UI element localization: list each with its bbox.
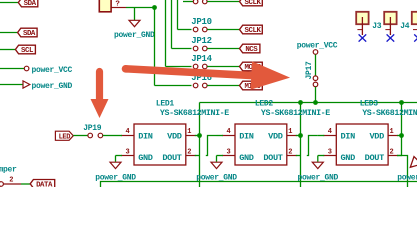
svg-text:1: 1 (288, 128, 292, 136)
svg-text:2: 2 (187, 149, 191, 157)
svg-text:DIN: DIN (341, 132, 356, 142)
svg-text:SCL: SCL (21, 47, 34, 55)
svg-text:2: 2 (390, 149, 394, 157)
svg-text:JP10: JP10 (191, 17, 211, 27)
svg-text:2: 2 (288, 149, 292, 157)
svg-text:YS-SK6812MINI-E: YS-SK6812MINI-E (362, 109, 417, 118)
svg-text:LED3: LED3 (360, 100, 379, 109)
svg-text:NCS: NCS (245, 46, 258, 54)
svg-text:SCLK: SCLK (245, 27, 262, 35)
svg-text:VDD: VDD (268, 132, 283, 142)
svg-text:4: 4 (125, 128, 129, 136)
svg-text:LED: LED (59, 133, 71, 141)
svg-text:J4: J4 (400, 22, 410, 31)
svg-text:GND: GND (341, 153, 356, 163)
svg-text:3: 3 (328, 149, 332, 157)
svg-text:DOUT: DOUT (162, 153, 181, 163)
svg-text:J3: J3 (372, 22, 382, 31)
svg-text:power_GND: power_GND (32, 82, 73, 91)
svg-text:VDD: VDD (167, 132, 182, 142)
svg-text:SCLK: SCLK (245, 0, 262, 7)
svg-text:power_VCC: power_VCC (297, 41, 338, 50)
svg-text:DIN: DIN (138, 132, 153, 142)
svg-text:GND: GND (239, 153, 254, 163)
svg-text:DOUT: DOUT (365, 153, 384, 163)
svg-text:SDA: SDA (24, 0, 37, 8)
svg-text:DOUT: DOUT (263, 153, 282, 163)
svg-text:DATA: DATA (36, 182, 53, 188)
svg-text:GND: GND (138, 153, 153, 163)
svg-text:JP12: JP12 (191, 36, 211, 46)
svg-text:1: 1 (187, 128, 191, 136)
svg-text:power_GND: power_GND (114, 31, 155, 40)
svg-text:JP19: JP19 (83, 124, 102, 133)
svg-text:DIN: DIN (239, 132, 254, 142)
svg-text:SDA: SDA (23, 30, 36, 38)
svg-text:JP17: JP17 (305, 61, 314, 80)
svg-text:3: 3 (125, 149, 129, 157)
svg-text:1: 1 (390, 128, 394, 136)
svg-text:power_VCC: power_VCC (32, 66, 73, 75)
svg-text:4: 4 (226, 128, 230, 136)
svg-text:LED1: LED1 (156, 100, 175, 109)
svg-text:LED2: LED2 (255, 100, 274, 109)
svg-text:YS-SK6812MINI-E: YS-SK6812MINI-E (160, 109, 229, 118)
svg-text:VDD: VDD (369, 132, 384, 142)
svg-text:mper: mper (0, 165, 17, 174)
svg-text:4: 4 (328, 128, 332, 136)
svg-text:YS-SK6812MINI-E: YS-SK6812MINI-E (261, 109, 330, 118)
svg-text:JP14: JP14 (191, 54, 212, 64)
svg-text:2: 2 (9, 177, 13, 185)
svg-text:3: 3 (226, 149, 230, 157)
